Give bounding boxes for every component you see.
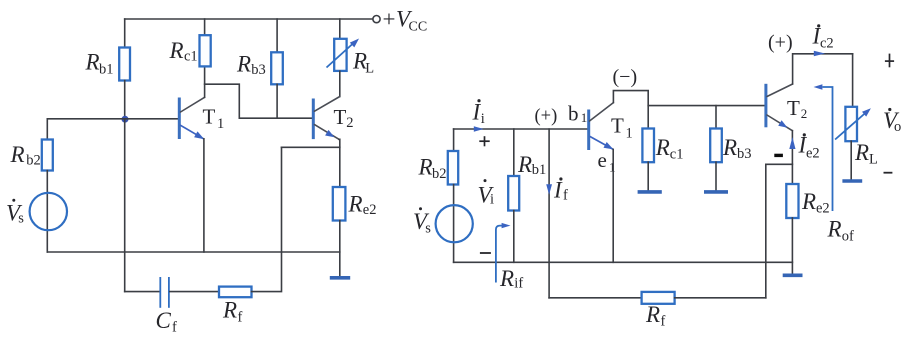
wire T1 emitter down to rail bbox=[612, 149, 614, 262]
wire Rb3 right hang bbox=[715, 106, 717, 129]
ground RL bbox=[842, 179, 862, 183]
svg-text:R: R bbox=[236, 52, 251, 77]
label plus Vi bbox=[479, 136, 489, 146]
transistor T1 bbox=[179, 97, 204, 139]
label T1 bbox=[203, 105, 225, 133]
svg-text:R: R bbox=[418, 155, 433, 180]
wire Re2 to ground bbox=[791, 218, 793, 274]
svg-text:R: R bbox=[655, 135, 670, 160]
wire RL bottom to T2 collector bbox=[339, 71, 341, 96]
wire T1 collector to Rc1 bbox=[204, 66, 206, 97]
svg-text:s: s bbox=[18, 211, 24, 227]
svg-text:of: of bbox=[842, 229, 854, 245]
svg-text:e2: e2 bbox=[816, 201, 830, 217]
transistor T1 right bbox=[589, 103, 614, 150]
wire Rb1 top bbox=[513, 129, 515, 176]
svg-text:R: R bbox=[10, 142, 25, 167]
svg-text:c1: c1 bbox=[670, 147, 684, 163]
wire Rb2 to rail through source bbox=[453, 185, 455, 263]
wire Rb1 bottom to node bbox=[124, 81, 126, 119]
resistor Rc1 right bbox=[642, 129, 654, 163]
resistor Rb2 right bbox=[448, 151, 458, 185]
arrow Ic2 bbox=[814, 51, 825, 56]
svg-text:b2: b2 bbox=[432, 166, 447, 182]
label T1 right bbox=[611, 114, 633, 142]
svg-text:R: R bbox=[499, 266, 514, 291]
label Rif bbox=[499, 266, 523, 292]
wire input rail bbox=[454, 128, 588, 130]
svg-text:e2: e2 bbox=[806, 145, 820, 161]
svg-text:R: R bbox=[827, 217, 842, 242]
label Rf bbox=[222, 298, 243, 326]
wire feedback riser right bbox=[765, 164, 767, 297]
label If bbox=[553, 177, 568, 203]
svg-text:if: if bbox=[514, 276, 523, 292]
resistor Rb3 right bbox=[710, 129, 722, 163]
label e1 bbox=[598, 148, 616, 174]
transistor T2 right bbox=[766, 84, 793, 131]
wire Rc1 right hang bbox=[647, 106, 649, 129]
ground Rb3 bbox=[704, 190, 728, 194]
svg-text:1: 1 bbox=[609, 159, 616, 174]
label Rc1 right bbox=[655, 135, 684, 163]
svg-text:L: L bbox=[365, 61, 374, 77]
label Rb3 right bbox=[722, 135, 752, 162]
capacitor Cf bbox=[160, 277, 169, 308]
svg-text:i: i bbox=[490, 192, 494, 208]
wire bottom rail right bbox=[454, 261, 793, 263]
wire Rb1 bottom bbox=[513, 211, 515, 263]
svg-text:(−): (−) bbox=[613, 66, 638, 88]
label Ic2 bbox=[812, 24, 834, 52]
svg-text:T: T bbox=[611, 114, 624, 138]
svg-text:+: + bbox=[383, 7, 396, 32]
svg-text:b1: b1 bbox=[532, 162, 547, 178]
label Rb3 bbox=[236, 52, 266, 79]
wire down to RL right bbox=[852, 54, 854, 107]
resistor Rb3 bbox=[271, 52, 283, 84]
label Cf bbox=[156, 308, 178, 336]
svg-text:R: R bbox=[169, 38, 184, 63]
wire Rb2 top bbox=[453, 129, 455, 151]
svg-text:e: e bbox=[598, 148, 607, 172]
svg-text:b2: b2 bbox=[26, 153, 41, 169]
wire base row: Rb2 corner to T1 base bbox=[47, 119, 178, 140]
arrow Rif bbox=[496, 223, 511, 283]
svg-text:(+): (+) bbox=[535, 107, 558, 127]
resistor Re2 bbox=[333, 187, 346, 221]
wire Rb3 top bbox=[276, 19, 278, 52]
wire T2 emitter down bbox=[791, 131, 793, 184]
svg-text:2: 2 bbox=[801, 106, 808, 121]
svg-text:f: f bbox=[563, 188, 568, 204]
svg-text:1: 1 bbox=[217, 116, 224, 132]
resistor Re2 right bbox=[786, 184, 798, 218]
svg-text:e2: e2 bbox=[363, 202, 377, 218]
svg-text:R: R bbox=[348, 192, 363, 217]
label T2 bbox=[334, 105, 354, 131]
wire Rf to feedback right riser bbox=[252, 147, 282, 291]
label RL right bbox=[854, 140, 878, 167]
transistor T2 bbox=[313, 97, 340, 140]
wire Rb1 top bbox=[124, 19, 126, 48]
resistor Rb2 bbox=[42, 140, 53, 171]
label Rb2 right bbox=[418, 155, 447, 183]
wire T2 collector up and top run bbox=[793, 54, 853, 84]
svg-text:R: R bbox=[801, 189, 816, 214]
svg-text:R: R bbox=[222, 298, 237, 323]
node base junction bbox=[122, 116, 129, 123]
resistor Rf bbox=[219, 287, 252, 298]
wire e2 branch horizontal bbox=[766, 163, 793, 165]
label Rf right bbox=[645, 302, 666, 330]
arrow Rof bbox=[814, 84, 833, 211]
label Re2 bbox=[348, 192, 377, 219]
wire Rb3 to ground bbox=[715, 162, 717, 190]
svg-text:o: o bbox=[894, 119, 901, 135]
arrow If bbox=[546, 184, 552, 195]
wire node down to feedback row bbox=[124, 119, 126, 292]
ground bbox=[330, 276, 350, 280]
svg-text:R: R bbox=[854, 140, 869, 165]
label Rb2 bbox=[10, 142, 41, 169]
label b1 bbox=[568, 101, 587, 125]
label minus e2 bbox=[774, 154, 783, 157]
svg-text:2: 2 bbox=[346, 115, 353, 131]
resistor Rb1 bbox=[119, 48, 130, 81]
svg-text:c1: c1 bbox=[184, 49, 198, 65]
svg-text:R: R bbox=[517, 152, 532, 177]
svg-text:C: C bbox=[156, 308, 172, 333]
resistor Rb1 right bbox=[508, 176, 519, 211]
wire Cf to Rf bbox=[170, 291, 219, 293]
label RL bbox=[352, 49, 374, 77]
wire T2 emitter junction to feedback riser bbox=[282, 139, 340, 147]
source Vs bbox=[30, 193, 67, 230]
svg-text:R: R bbox=[722, 135, 737, 160]
svg-text:T: T bbox=[787, 96, 800, 120]
svg-text:L: L bbox=[869, 151, 878, 167]
label minus Vo bbox=[884, 172, 893, 174]
resistor Rf right bbox=[642, 292, 675, 304]
svg-text:s: s bbox=[425, 221, 431, 237]
wire bottom rail bbox=[47, 251, 340, 253]
ground Rc1 bbox=[638, 190, 662, 194]
svg-text:R: R bbox=[85, 50, 100, 75]
svg-text:c2: c2 bbox=[820, 35, 834, 51]
label plus Vo bbox=[885, 54, 894, 68]
label +VCC bbox=[383, 7, 428, 35]
wire T2 emitter down to Re2 bbox=[339, 147, 341, 187]
wire Rb2 to bottom rail (through source) bbox=[46, 171, 48, 253]
svg-text:T: T bbox=[203, 105, 216, 129]
wire Rb3 bottom to base row bbox=[276, 84, 278, 118]
svg-text:f: f bbox=[172, 320, 177, 336]
svg-text:1: 1 bbox=[626, 126, 633, 142]
wire feedback row left of Rf bbox=[549, 297, 642, 299]
wire feedback row left bbox=[125, 291, 160, 293]
resistor RL variable bbox=[327, 39, 360, 71]
resistor Rc1 bbox=[200, 35, 211, 66]
arrow Ie2 bbox=[789, 137, 795, 149]
wire interstage: collector branch to T2 base bbox=[205, 84, 312, 118]
label Rb1 right bbox=[517, 152, 546, 178]
label Re2 right bbox=[801, 189, 830, 217]
label Ie2 bbox=[798, 132, 820, 161]
wire Rc1 to ground bbox=[647, 162, 649, 190]
svg-text:f: f bbox=[661, 314, 666, 330]
label Vi bbox=[478, 179, 495, 207]
label T2 right bbox=[787, 96, 807, 121]
svg-text:(+): (+) bbox=[768, 32, 793, 54]
wire Rc1 top bbox=[204, 19, 206, 35]
label Rof bbox=[827, 217, 855, 245]
svg-text:I: I bbox=[553, 178, 563, 203]
svg-text:R: R bbox=[645, 302, 660, 327]
svg-text:b1: b1 bbox=[99, 62, 114, 78]
svg-text:b: b bbox=[568, 101, 579, 125]
label Ii bbox=[472, 99, 485, 127]
terminal +VCC bbox=[373, 16, 380, 23]
arrow Ii bbox=[474, 126, 484, 132]
svg-text:b3: b3 bbox=[251, 62, 265, 78]
svg-text:i: i bbox=[481, 111, 485, 127]
wire feedback row right of Rf bbox=[675, 297, 766, 299]
label Vs bbox=[6, 199, 24, 227]
resistor RL right variable bbox=[835, 107, 871, 141]
label Rb1 bbox=[85, 50, 114, 78]
wire If branch bbox=[548, 129, 550, 298]
svg-text:CC: CC bbox=[409, 20, 428, 35]
svg-text:b3: b3 bbox=[737, 146, 752, 162]
svg-text:T: T bbox=[334, 105, 347, 129]
label minus Vi bbox=[480, 252, 491, 254]
wire top supply rail bbox=[125, 18, 373, 20]
wire T1 emitter down to rail bbox=[203, 139, 205, 252]
label Rc1 bbox=[169, 38, 198, 65]
ground rail right bbox=[783, 273, 803, 277]
source Vs right bbox=[436, 205, 473, 242]
wire RL top bbox=[339, 19, 341, 39]
svg-text:f: f bbox=[238, 310, 243, 326]
wire T1 collector staircase to T2 base bbox=[613, 91, 764, 106]
wire Re2 bottom to ground bbox=[339, 221, 341, 277]
svg-text:1: 1 bbox=[581, 110, 588, 125]
wire RL to ground bbox=[850, 141, 852, 179]
label Vs right bbox=[413, 207, 431, 236]
label Vo bbox=[883, 108, 901, 135]
